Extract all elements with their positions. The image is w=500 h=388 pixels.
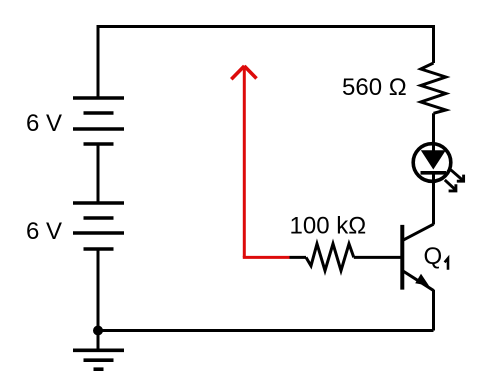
transistor Q1 base bar xyxy=(400,225,404,290)
LED D1 xyxy=(413,142,451,225)
svg-text:560 Ω: 560 Ω xyxy=(342,74,407,101)
resistor R1 560 ohm (zigzag) xyxy=(421,63,446,113)
transistor Q1 collector diagonal xyxy=(403,224,434,240)
wire emitter to bottom rail xyxy=(432,290,435,331)
label Q1 xyxy=(424,243,449,270)
label 6 V (battery B2) xyxy=(26,218,62,245)
LED light arrow 2 xyxy=(445,180,456,191)
red wire to resistor R2 xyxy=(243,256,290,259)
wire left rail lower (battery B2 to ground node) xyxy=(97,249,100,350)
svg-text:Q: Q xyxy=(424,243,443,270)
battery B1 (6 V) xyxy=(73,98,124,144)
red current arrow (shaft) xyxy=(243,66,246,258)
red current arrow (head) xyxy=(231,66,256,79)
ground xyxy=(73,350,124,369)
junction dot (node at left rail / bottom rail) xyxy=(93,326,103,336)
LED light arrow 1 xyxy=(449,168,464,181)
wire left rail upper (top rail to battery B1) xyxy=(97,25,100,98)
svg-text:6 V: 6 V xyxy=(26,110,62,137)
wire top rail xyxy=(98,25,434,28)
wire bottom rail xyxy=(98,329,434,332)
wire resistor R1 to LED xyxy=(432,113,435,144)
resistor R2 100 kohm (zigzag) xyxy=(306,244,354,271)
battery B2 (6 V) xyxy=(73,203,124,249)
label 100 kohm xyxy=(290,212,367,239)
svg-text:6 V: 6 V xyxy=(26,218,62,245)
wire right rail upper (top rail to resistor R1) xyxy=(432,25,435,63)
transistor Q1 emitter arrowhead xyxy=(415,274,429,286)
wire resistor R2 to base xyxy=(354,256,401,259)
wire between batteries xyxy=(97,144,100,203)
label 6 V (battery B1) xyxy=(26,110,62,137)
label 560 ohm xyxy=(342,74,407,101)
wire red end to resistor R2 xyxy=(290,256,307,259)
transistor Q1 emitter diagonal xyxy=(403,271,434,291)
svg-text:100 kΩ: 100 kΩ xyxy=(290,212,367,239)
